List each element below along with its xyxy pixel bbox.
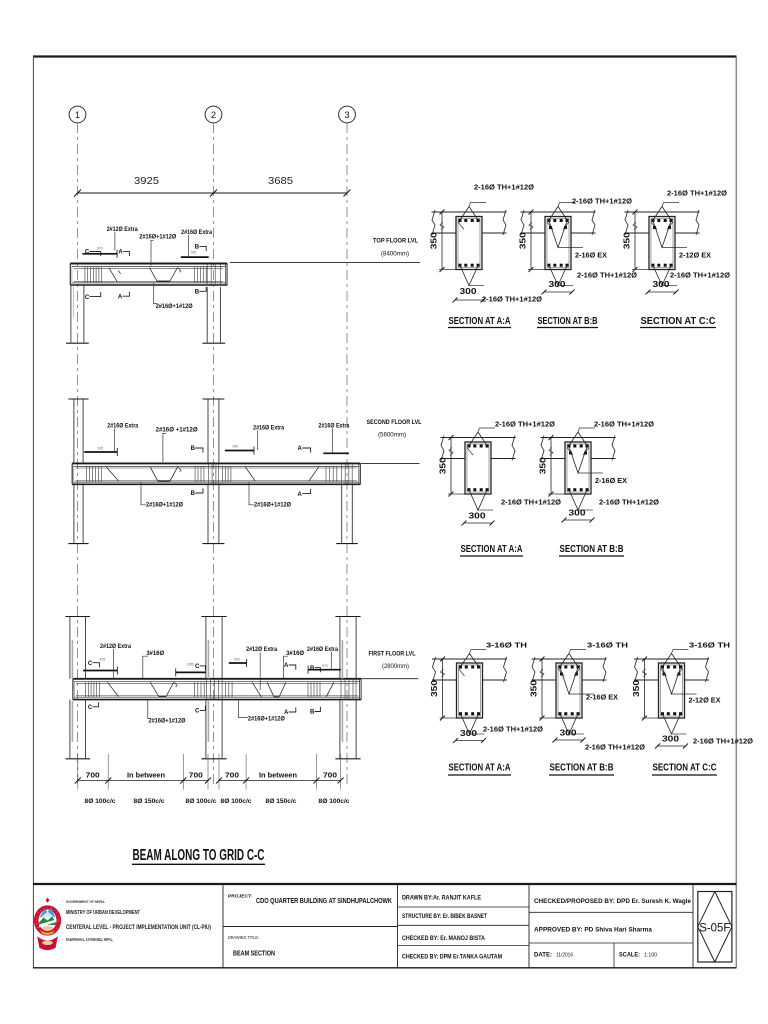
svg-text:DRAWING TITLE:: DRAWING TITLE: xyxy=(228,935,259,940)
SECTION AT B:B slab lines xyxy=(521,210,596,235)
svg-text:DATE:: DATE: xyxy=(534,951,552,958)
svg-text:350: 350 xyxy=(429,680,439,697)
Nepal government emblem logo xyxy=(36,898,59,951)
beam B2 stirrups grid 2 joint xyxy=(195,464,231,484)
svg-text:350: 350 xyxy=(518,232,528,249)
beam B3 extra top bar left xyxy=(83,667,117,675)
section cut C-C marks near grid 2 on beam B3 xyxy=(195,664,205,715)
svg-text:925: 925 xyxy=(97,446,103,450)
svg-text:2-16Ø TH+1#12Ø: 2-16Ø TH+1#12Ø xyxy=(572,197,632,206)
svg-text:2-16Ø TH+1#12Ø: 2-16Ø TH+1#12Ø xyxy=(670,271,730,280)
SECTION AT B:B beam outline xyxy=(545,217,571,270)
beam B2 bent bar left support xyxy=(106,467,118,481)
label 2#16Ø Extra 3 on beam B2 xyxy=(318,423,349,453)
beam B1 stirrup hatching at left support xyxy=(85,267,102,283)
svg-text:A: A xyxy=(298,492,303,498)
svg-text:2#16Ø+1#12Ø: 2#16Ø+1#12Ø xyxy=(248,716,285,723)
svg-text:In between: In between xyxy=(259,772,297,779)
svg-text:S-05F: S-05F xyxy=(699,920,730,934)
section cut C-C marks at left of beam B3 xyxy=(88,658,105,711)
svg-text:2#16Ø+1#12Ø: 2#16Ø+1#12Ø xyxy=(254,501,291,508)
svg-text:C: C xyxy=(195,709,200,715)
svg-text:A: A xyxy=(284,663,289,669)
SECTION AT B:B beam outline xyxy=(556,663,582,718)
SECTION AT B:B 300 dimension xyxy=(562,507,595,522)
label 3#16Ø right on beam B3 xyxy=(284,650,305,678)
svg-text:DRAWN BY:Ar. RANJIT KAFLE: DRAWN BY:Ar. RANJIT KAFLE xyxy=(402,895,481,902)
section cut A-A marks on beam B1 xyxy=(118,250,130,301)
svg-text:8Ø 150c/c: 8Ø 150c/c xyxy=(266,798,298,805)
svg-text:2#16Ø Extra: 2#16Ø Extra xyxy=(107,423,138,430)
SECTION AT A:A caption xyxy=(448,763,511,776)
svg-text:700: 700 xyxy=(225,772,239,779)
SECTION AT A:A 350 dimension xyxy=(429,657,457,721)
title block approved column xyxy=(529,898,693,968)
svg-text:350: 350 xyxy=(538,457,548,474)
dimension texts 700 / In between row xyxy=(86,772,337,779)
label 2#16Ø+1#12Ø bottom-right on beam B2 xyxy=(249,482,291,509)
svg-text:CENTERAL LEVEL - PROJECT IMPLE: CENTERAL LEVEL - PROJECT IMPLEMENTATION … xyxy=(66,924,211,931)
SECTION AT B:B slab lines xyxy=(532,657,607,682)
columns above beam B3 at grids 1,2,3 xyxy=(65,617,360,679)
svg-text:1350: 1350 xyxy=(187,662,195,666)
svg-text:SECOND FLOOR LVL: SECOND FLOOR LVL xyxy=(367,419,422,426)
SECTION AT A:A rebar dots xyxy=(459,666,480,716)
SECTION AT A:A top bar bend and label xyxy=(459,641,528,677)
svg-text:2-16Ø TH+1#12Ø: 2-16Ø TH+1#12Ø xyxy=(483,725,543,734)
columns above beam B2 at grids 1,2 xyxy=(68,399,224,463)
svg-text:3-16Ø TH: 3-16Ø TH xyxy=(486,641,527,650)
stirrup spacing labels 8Ø c/c row xyxy=(85,798,351,805)
svg-text:B: B xyxy=(191,491,196,497)
svg-text:925: 925 xyxy=(191,250,197,254)
svg-text:SECTION AT C:C: SECTION AT C:C xyxy=(653,763,717,774)
beam B1 extra top bar right xyxy=(181,256,209,258)
svg-text:700: 700 xyxy=(323,772,337,779)
SECTION AT A:A 300 dimension xyxy=(453,728,486,743)
SECTION AT B:B beam outline xyxy=(565,442,591,494)
svg-text:SECTION AT B:B: SECTION AT B:B xyxy=(560,544,624,555)
beam B3 stirrups grid 2 joint xyxy=(195,680,233,700)
beam B1 midspan bent bars xyxy=(150,268,181,282)
SECTION AT A:A caption xyxy=(460,544,523,556)
SECTION AT C:C caption xyxy=(640,316,716,328)
svg-text:3685: 3685 xyxy=(268,175,293,187)
beam B2 bent bars span 2-3 xyxy=(245,467,318,481)
svg-text:2#12Ø Extra: 2#12Ø Extra xyxy=(246,646,277,653)
SECTION AT A:A caption xyxy=(448,316,511,328)
SECTION AT B:B rebar dots xyxy=(568,445,589,492)
svg-text:TOP FLOOR LVL: TOP FLOOR LVL xyxy=(373,238,418,245)
beam B2 midspan bent bars span 1-2 xyxy=(150,467,181,481)
svg-text:(8400mm): (8400mm) xyxy=(381,250,409,257)
SECTION AT B:B bottom bar bend and label xyxy=(560,714,645,752)
svg-text:970: 970 xyxy=(322,664,328,668)
svg-text:SECTION AT C:C: SECTION AT C:C xyxy=(641,316,716,327)
svg-text:1: 1 xyxy=(75,110,80,120)
SECTION AT C:C slab lines xyxy=(625,210,700,235)
beam B2 extra top bar right of grid 2 xyxy=(225,445,254,455)
label 2#16Ø Extra on beam B3 xyxy=(307,646,338,669)
SECTION AT B:B rebar dots xyxy=(548,219,569,267)
label 2#16Ø Extra on beam B1 xyxy=(181,229,212,257)
SECTION AT C:C caption xyxy=(652,763,717,776)
svg-text:FIRST FLOOR LVL: FIRST FLOOR LVL xyxy=(369,650,416,657)
svg-text:2-16Ø TH+1#12Ø: 2-16Ø TH+1#12Ø xyxy=(594,420,654,429)
svg-text:925: 925 xyxy=(99,658,105,662)
SECTION AT A:A top bar bend and label xyxy=(467,420,555,456)
svg-text:300: 300 xyxy=(662,733,679,743)
svg-text:B: B xyxy=(310,710,315,716)
svg-text:A: A xyxy=(118,250,123,256)
section cut A-A marks on beam B2 xyxy=(298,446,311,498)
label 2#16Ø +1#12Ø on beam B2 xyxy=(156,427,198,462)
SECTION AT B:B caption xyxy=(559,544,624,556)
SECTION AT A:A bottom bar bend and label xyxy=(469,490,561,510)
beam B3 bent bar left support xyxy=(108,682,119,696)
SECTION AT A:A rebar dots xyxy=(468,445,489,492)
SECTION AT B:B top bar bend and label xyxy=(547,197,632,230)
beam B1 stirrup hatching at grid 2 joint xyxy=(194,265,220,286)
label 2#16Ø+1#12Ø bottom on beam B1 xyxy=(154,283,193,310)
svg-text:300: 300 xyxy=(549,279,566,289)
svg-text:CHECKED BY: Er. MANOJ BISTA: CHECKED BY: Er. MANOJ BISTA xyxy=(402,935,485,942)
beam B3 extra top bar left of grid 3 xyxy=(308,664,341,674)
beam B3 stirrups grid 3 joint xyxy=(308,680,356,700)
svg-text:8Ø 150c/c: 8Ø 150c/c xyxy=(134,798,166,805)
svg-text:2#16Ø +1#12Ø: 2#16Ø +1#12Ø xyxy=(156,427,198,434)
SECTION AT B:B 300 dimension xyxy=(553,727,586,742)
section cut B-B marks on beam B1 xyxy=(191,245,207,296)
SECTION AT A:A beam outline xyxy=(465,442,491,494)
SECTION AT B:B top bar bend and label xyxy=(567,420,654,456)
label 2#12Ø Extra left on beam B3 xyxy=(100,643,131,679)
section cut B-B marks on beam B3 xyxy=(310,666,320,716)
SECTION AT A:A bottom bar bend and label xyxy=(461,714,544,734)
svg-text:C: C xyxy=(88,705,93,711)
svg-text:8Ø 100c/c: 8Ø 100c/c xyxy=(221,798,253,805)
SECTION AT A:A 300 dimension xyxy=(453,286,486,303)
svg-text:SECTION AT B:B: SECTION AT B:B xyxy=(538,316,598,327)
svg-text:300: 300 xyxy=(569,507,586,517)
SECTION AT B:B rebar dots xyxy=(559,666,580,716)
dimension line 3925/3685 xyxy=(74,175,351,197)
label 2#16Ø+1#12Ø bottom-left on beam B3 xyxy=(148,700,186,725)
svg-text:350: 350 xyxy=(631,680,641,697)
svg-text:350: 350 xyxy=(529,680,539,697)
SECTION AT C:C rebar dots xyxy=(661,666,682,716)
drawing title BEAM ALONG TO GRID C-C xyxy=(132,847,265,865)
SECTION AT C:C 350 dimension xyxy=(631,657,659,721)
svg-text:3: 3 xyxy=(344,110,349,120)
svg-text:A: A xyxy=(118,294,123,300)
svg-text:CHECKED BY: DPM Er.TANKA GAUTA: CHECKED BY: DPM Er.TANKA GAUTAM xyxy=(402,954,502,961)
svg-text:B: B xyxy=(195,290,200,296)
svg-text:2-16Ø TH+1#12Ø: 2-16Ø TH+1#12Ø xyxy=(585,743,645,752)
svg-text:B: B xyxy=(191,446,196,452)
SECTION AT A:A slab lines xyxy=(432,210,507,235)
beam B3 extra top bar right of grid 2 xyxy=(229,657,247,667)
svg-text:2-16Ø TH+1#12Ø: 2-16Ø TH+1#12Ø xyxy=(474,183,534,192)
SECTION AT A:A 350 dimension xyxy=(429,210,457,273)
beam B3 first-floor elevation body xyxy=(73,679,361,700)
beam B3 extra top bar left of grid 2 xyxy=(176,662,206,676)
title block project column xyxy=(223,893,398,957)
beam B1 bent bar near left support xyxy=(109,268,121,282)
svg-text:930: 930 xyxy=(232,445,238,449)
svg-text:2#12Ø Extra: 2#12Ø Extra xyxy=(100,643,131,650)
beam B1 extra top bar left xyxy=(83,250,118,258)
SECTION AT B:B 350 dimension xyxy=(518,210,546,273)
svg-text:2#16Ø Extra: 2#16Ø Extra xyxy=(318,423,349,430)
label 2#16Ø Extra 2 on beam B2 xyxy=(253,424,284,450)
svg-text:2-16Ø TH+1#12Ø: 2-16Ø TH+1#12Ø xyxy=(577,271,637,280)
svg-text:2-12Ø EX: 2-12Ø EX xyxy=(689,696,721,705)
svg-text:2-16Ø EX: 2-16Ø EX xyxy=(575,251,607,260)
SECTION AT B:B 300 dimension xyxy=(542,279,575,295)
SECTION AT C:C 300 dimension xyxy=(646,279,679,295)
svg-text:2-16Ø TH+1#12Ø: 2-16Ø TH+1#12Ø xyxy=(599,498,659,507)
title block agency text xyxy=(66,899,211,942)
label 2#12Ø Extra on beam B1 xyxy=(107,226,138,251)
svg-text:2-16Ø TH+1#12Ø: 2-16Ø TH+1#12Ø xyxy=(501,498,561,507)
svg-text:3#16Ø: 3#16Ø xyxy=(286,650,304,657)
svg-text:BEAM ALONG TO GRID C-C: BEAM ALONG TO GRID C-C xyxy=(133,847,265,864)
SECTION AT B:B extra bar V and EX label xyxy=(549,221,607,260)
svg-text:2#16Ø+1#12Ø: 2#16Ø+1#12Ø xyxy=(139,234,176,241)
svg-text:2-16Ø TH+1#12Ø: 2-16Ø TH+1#12Ø xyxy=(482,295,542,304)
svg-text:C: C xyxy=(85,250,90,256)
drawing number S-05F diamond xyxy=(698,892,732,963)
svg-text:(2800mm): (2800mm) xyxy=(382,663,409,670)
svg-text:BEAM SECTION: BEAM SECTION xyxy=(233,951,275,958)
SECTION AT B:B extra bar V and EX label xyxy=(560,668,618,702)
SECTION AT C:C bottom bar bend and label xyxy=(663,714,754,746)
svg-text:C: C xyxy=(88,661,93,667)
svg-text:C: C xyxy=(85,295,90,301)
SECTION AT C:C slab lines xyxy=(634,657,709,682)
SECTION AT A:A 300 dimension xyxy=(462,510,495,525)
svg-text:SCALE:: SCALE: xyxy=(619,951,640,958)
svg-text:300: 300 xyxy=(460,286,477,296)
SECTION AT B:B bottom bar bend and label xyxy=(569,490,659,510)
stirrup spacing dimension lines under beam B3 xyxy=(75,754,344,790)
svg-text:B: B xyxy=(310,666,315,672)
grid line 1 circle and dashed axis xyxy=(69,106,86,786)
svg-text:300: 300 xyxy=(469,510,486,520)
svg-text:APPROVED BY: PD Shiva Hari Sh: APPROVED BY: PD Shiva Hari Sharma xyxy=(534,927,652,934)
svg-text:2#16Ø Extra: 2#16Ø Extra xyxy=(307,646,338,653)
svg-text:700: 700 xyxy=(86,772,100,779)
svg-text:CHECKED/PROPOSED BY: DPD Er. S: CHECKED/PROPOSED BY: DPD Er. Suresh K. W… xyxy=(534,898,691,905)
beam B2 extra top bar left xyxy=(84,446,117,456)
svg-text:(5600mm): (5600mm) xyxy=(378,432,406,439)
label 2#16Ø Extra 1 on beam B2 xyxy=(107,423,138,452)
SECTION AT C:C 300 dimension xyxy=(655,733,688,748)
SECTION AT A:A bottom bar bend and label xyxy=(460,266,542,304)
svg-text:8Ø 100c/c: 8Ø 100c/c xyxy=(186,798,218,805)
label 3#16Ø left on beam B3 xyxy=(143,650,164,678)
beam B2 extra top bar at grid 3 xyxy=(323,452,349,454)
svg-text:300: 300 xyxy=(560,727,577,737)
SECTION AT C:C 350 dimension xyxy=(622,210,650,273)
SECTION AT A:A beam outline xyxy=(457,663,483,718)
SECTION AT A:A 350 dimension xyxy=(438,435,466,497)
svg-text:350: 350 xyxy=(622,232,632,249)
svg-text:2: 2 xyxy=(211,110,216,120)
title block frame xyxy=(33,884,737,968)
svg-text:2#16Ø Extra: 2#16Ø Extra xyxy=(181,229,212,236)
svg-text:3925: 3925 xyxy=(134,175,159,187)
grid line 2 circle and dashed axis xyxy=(205,106,222,786)
SECTION AT C:C beam outline xyxy=(649,217,675,270)
SECTION AT C:C top bar bend and label xyxy=(651,189,727,230)
svg-text:BABARMAHAL, KATHMANDU, NEPAL,: BABARMAHAL, KATHMANDU, NEPAL, xyxy=(66,937,113,942)
SECTION AT B:B slab lines xyxy=(541,436,616,461)
svg-text:2-16Ø TH+1#12Ø: 2-16Ø TH+1#12Ø xyxy=(495,420,555,429)
SECTION AT A:A slab lines xyxy=(441,436,516,461)
svg-text:2-16Ø TH+1#12Ø: 2-16Ø TH+1#12Ø xyxy=(693,737,753,746)
SECTION AT A:A beam outline xyxy=(456,217,482,270)
title block drawn-by column xyxy=(398,895,530,961)
svg-text:SECTION AT A:A: SECTION AT A:A xyxy=(461,544,523,555)
FIRST FLOOR LVL line and text xyxy=(362,650,419,678)
TOP FLOOR LVL line and text xyxy=(230,238,420,263)
beam B2 stirrups left support xyxy=(87,466,102,482)
beam B2 stirrups grid 3 joint xyxy=(326,464,352,484)
svg-text:3-16Ø TH: 3-16Ø TH xyxy=(689,641,730,650)
SECTION AT C:C top bar bend and label xyxy=(661,641,731,677)
svg-text:GOVERNMENT OF NEPAL: GOVERNMENT OF NEPAL xyxy=(66,899,105,904)
svg-text:2#16Ø+1#12Ø: 2#16Ø+1#12Ø xyxy=(149,718,186,725)
SECTION AT B:B extra bar V and EX label xyxy=(569,447,627,486)
svg-text:300: 300 xyxy=(653,279,670,289)
svg-text:11/2016: 11/2016 xyxy=(556,952,573,958)
SECTION AT B:B 350 dimension xyxy=(529,657,557,721)
svg-text:2#16Ø+1#12Ø: 2#16Ø+1#12Ø xyxy=(146,501,183,508)
SECTION AT A:A top bar bend and label xyxy=(458,183,534,230)
svg-text:970: 970 xyxy=(97,246,103,250)
svg-text:SECTION AT A:A: SECTION AT A:A xyxy=(449,763,511,774)
section cut A-A marks on beam B3 xyxy=(284,663,296,716)
svg-text:MINISTRY OF URBAN DEVELOPMENT: MINISTRY OF URBAN DEVELOPMENT xyxy=(66,910,140,916)
columns below beam B3 at grids 1,2,3 xyxy=(65,700,360,759)
SECOND FLOOR LVL line and text xyxy=(361,419,422,463)
svg-text:8Ø 100c/c: 8Ø 100c/c xyxy=(319,798,351,805)
svg-text:3-16Ø TH: 3-16Ø TH xyxy=(587,641,628,650)
SECTION AT B:B 350 dimension xyxy=(538,435,566,497)
svg-text:1:100: 1:100 xyxy=(644,952,657,958)
section cut B-B marks on beam B2 xyxy=(191,446,203,497)
section cut C-C marks on beam B1 xyxy=(85,246,103,300)
SECTION AT B:B bottom bar bend and label xyxy=(549,266,637,286)
SECTION AT C:C beam outline xyxy=(659,663,685,718)
svg-text:700: 700 xyxy=(189,772,203,779)
beam B3 midspan bent bars span 1-2 xyxy=(150,682,177,697)
SECTION AT B:B top bar bend and label xyxy=(558,641,628,677)
SECTION AT C:C bottom bar bend and label xyxy=(653,266,730,286)
svg-text:930: 930 xyxy=(234,657,240,661)
svg-text:SECTION AT A:A: SECTION AT A:A xyxy=(449,316,511,327)
svg-text:CDO QUARTER BUILDING AT SINDHU: CDO QUARTER BUILDING AT SINDHUPALCHOWK xyxy=(256,898,392,905)
label 2#16Ø+1#12Ø bottom-right on beam B3 xyxy=(238,700,285,723)
svg-text:2-16Ø TH+1#12Ø: 2-16Ø TH+1#12Ø xyxy=(667,189,727,198)
svg-text:PROJECT:: PROJECT: xyxy=(228,893,252,898)
label 2#16Ø+1#12Ø top on beam B1 xyxy=(139,234,176,266)
column below beam B1 at grid 2 xyxy=(203,287,226,343)
svg-text:350: 350 xyxy=(438,457,448,474)
SECTION AT B:B caption xyxy=(537,316,598,328)
beam B3 bent bars span 2-3 xyxy=(252,682,334,697)
SECTION AT C:C rebar dots xyxy=(652,219,673,267)
svg-text:2-16Ø EX: 2-16Ø EX xyxy=(595,476,627,485)
grid line 3 circle and dashed axis xyxy=(339,106,356,786)
svg-text:300: 300 xyxy=(460,728,477,738)
svg-text:In between: In between xyxy=(127,772,165,779)
column below beam B1 at grid 1 xyxy=(66,285,89,343)
columns below beam B2 at grids 1,2,3 xyxy=(68,484,357,543)
svg-text:2-12Ø EX: 2-12Ø EX xyxy=(679,251,711,260)
SECTION AT A:A rebar dots xyxy=(459,219,480,267)
beam B3 stirrups left support xyxy=(86,682,100,698)
svg-text:C: C xyxy=(195,664,200,670)
beam B1 top-floor elevation body xyxy=(70,264,227,286)
svg-text:SECTION AT B:B: SECTION AT B:B xyxy=(550,763,614,774)
svg-text:STRUCTURE BY: Er. BIBEK BASNET: STRUCTURE BY: Er. BIBEK BASNET xyxy=(402,913,487,920)
svg-text:A: A xyxy=(298,446,303,452)
svg-text:3#16Ø: 3#16Ø xyxy=(146,650,164,657)
svg-text:2#12Ø Extra: 2#12Ø Extra xyxy=(107,226,138,233)
svg-text:8Ø 100c/c: 8Ø 100c/c xyxy=(85,798,117,805)
SECTION AT C:C extra bar V and EX label xyxy=(663,668,721,705)
svg-text:350: 350 xyxy=(429,232,439,249)
svg-text:2-16Ø EX: 2-16Ø EX xyxy=(586,693,618,702)
svg-text:2#16Ø+1#12Ø: 2#16Ø+1#12Ø xyxy=(156,303,193,310)
label 2#16Ø+1#12Ø bottom-left on beam B2 xyxy=(141,482,183,509)
beam B2 second-floor elevation body xyxy=(72,463,360,484)
svg-text:2#16Ø Extra: 2#16Ø Extra xyxy=(253,424,284,431)
SECTION AT A:A slab lines xyxy=(432,657,507,682)
label 2#12Ø Extra right on beam B3 xyxy=(246,646,277,690)
SECTION AT C:C extra bar V and EX label xyxy=(653,221,711,260)
SECTION AT B:B caption xyxy=(549,763,614,776)
